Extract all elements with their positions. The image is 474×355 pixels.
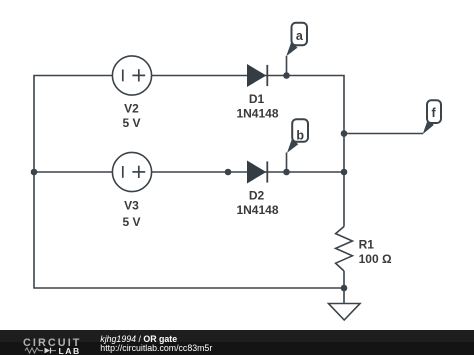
node a flag bbox=[286, 23, 307, 57]
footer bar bbox=[0, 330, 474, 355]
wire resistor bottom lead bbox=[343, 271, 345, 288]
svg-text:1N4148: 1N4148 bbox=[236, 203, 278, 217]
node b flag bbox=[287, 119, 308, 153]
junction dot left rail row2 bbox=[31, 169, 38, 176]
svg-text:b: b bbox=[296, 128, 304, 142]
resistor R1 bbox=[336, 227, 392, 272]
svg-text:5 V: 5 V bbox=[122, 215, 140, 229]
footer credit text bbox=[100, 334, 212, 353]
wire row1 right of V2 bbox=[152, 76, 345, 227]
node F junction dot bbox=[341, 130, 348, 137]
wire row2 right of V3 bbox=[152, 171, 345, 173]
wire left vertical bbox=[34, 76, 344, 289]
svg-text:http://circuitlab.com/cc83m5r: http://circuitlab.com/cc83m5r bbox=[100, 343, 212, 353]
svg-text:D2: D2 bbox=[249, 188, 265, 202]
wire row2 left of V3 bbox=[34, 171, 113, 173]
node f flag bbox=[423, 100, 441, 134]
svg-text:V2: V2 bbox=[124, 102, 139, 116]
svg-text:a: a bbox=[296, 29, 304, 43]
wire node b vertical bbox=[286, 153, 288, 173]
svg-text:LAB: LAB bbox=[59, 346, 81, 355]
svg-text:D1: D1 bbox=[249, 92, 265, 106]
junction dot bus row2 bbox=[341, 169, 348, 176]
svg-text:5 V: 5 V bbox=[122, 116, 140, 130]
voltage source V3 bbox=[112, 152, 151, 229]
diode D2 bbox=[236, 161, 278, 216]
svg-text:100 Ω: 100 Ω bbox=[359, 252, 392, 266]
wire node f horizontal bbox=[344, 133, 423, 135]
node A junction dot bbox=[283, 72, 290, 79]
ground bbox=[329, 304, 361, 321]
svg-text:1N4148: 1N4148 bbox=[236, 106, 278, 120]
junction dot before D2 bbox=[225, 169, 232, 176]
wire node a vertical bbox=[286, 56, 288, 76]
diode D1 bbox=[236, 65, 278, 120]
wire ground lead bbox=[343, 288, 345, 304]
svg-text:V3: V3 bbox=[124, 199, 139, 213]
svg-text:R1: R1 bbox=[359, 238, 375, 252]
voltage source V2 bbox=[112, 56, 151, 130]
CircuitLab logo bbox=[23, 337, 81, 355]
node B junction dot bbox=[283, 169, 290, 176]
junction dot bottom bbox=[341, 285, 348, 292]
